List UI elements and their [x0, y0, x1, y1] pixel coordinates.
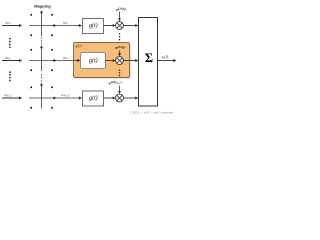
node dashes axis column between rows 1-2	[41, 37, 43, 44]
wire into filter row 3	[79, 97, 82, 100]
mapper constellation row 3	[29, 83, 81, 109]
wire multiplier to summer row 2	[123, 59, 138, 62]
wire into filter row 2	[77, 59, 80, 62]
wire input row 3	[2, 97, 22, 100]
filter GN-1 g(t) row 3	[83, 91, 104, 106]
wire input row 2	[2, 59, 22, 62]
svg-text:g(t): g(t)	[89, 22, 98, 29]
node dots multiplier column between rows 2-3	[119, 70, 121, 77]
wire multiplier to summer row 3	[123, 97, 138, 100]
svg-text:a0,l: a0,l	[63, 20, 68, 25]
svg-text:qN-1,l: qN-1,l	[4, 93, 12, 98]
node dots input column between rows 1-2	[9, 38, 11, 48]
wire oscillator to multiplier row 1	[118, 12, 121, 21]
highlight box gk(t) around row 2	[74, 43, 131, 79]
node dashes axis column between rows 2-3	[41, 74, 43, 81]
wire oscillator to multiplier row 2	[118, 50, 121, 56]
filter Gk g(t) row 2 highlighted	[81, 53, 106, 69]
svg-text:ej2πfN-1t: ej2πfN-1t	[109, 80, 122, 85]
wire multiplier to summer row 1	[123, 24, 138, 27]
wire filter to multiplier row 2	[106, 59, 116, 62]
multiplier X0 row 1	[116, 22, 124, 30]
svg-text:q0,l: q0,l	[6, 20, 11, 25]
svg-text:g(t): g(t)	[89, 95, 98, 102]
svg-text:ej2πf0t: ej2πf0t	[116, 7, 126, 12]
filter G0 g(t) row 1	[83, 19, 104, 34]
svg-text:Mapping: Mapping	[34, 4, 51, 9]
node dots multiplier column between rows 1-2	[119, 33, 121, 40]
multiplier XN-1 row 3	[116, 94, 124, 102]
svg-text:g(t): g(t)	[89, 57, 98, 64]
mapper constellation row 1	[29, 10, 81, 36]
svg-text:sk(t): sk(t)	[162, 55, 169, 60]
wire input row 1	[2, 24, 22, 27]
summer U1 sigma block	[139, 18, 158, 107]
svg-text:ak,l: ak,l	[63, 55, 68, 60]
wire into filter row 1	[79, 24, 82, 27]
wire filter to multiplier row 3	[104, 97, 116, 100]
svg-text:Σ: Σ	[145, 51, 153, 65]
multiplier Xk row 2	[116, 57, 124, 65]
node dots input column between rows 2-3	[9, 71, 11, 81]
wire output s(t)	[158, 59, 177, 62]
svg-text:© 2011 — LNT — de l'Université: © 2011 — LNT — de l'Université	[130, 110, 174, 114]
svg-text:aN-1,l: aN-1,l	[62, 93, 70, 98]
svg-text:qk,l: qk,l	[6, 55, 11, 60]
wire filter to multiplier row 1	[104, 24, 116, 27]
wire oscillator to multiplier row 3	[118, 86, 121, 94]
mapper constellation row 2	[29, 45, 81, 71]
